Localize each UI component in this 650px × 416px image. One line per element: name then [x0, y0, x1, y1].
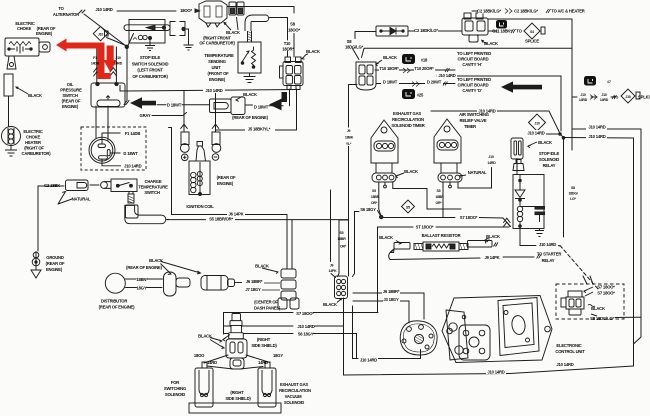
svg-text:G2 18BK: G2 18BK — [44, 183, 60, 188]
svg-text:18BR: 18BR — [435, 195, 444, 199]
svg-text:18OO*: 18OO* — [288, 28, 300, 33]
svg-text:OF CARBURETOR): OF CARBURETOR) — [132, 74, 168, 79]
svg-text:STOP IDLE: STOP IDLE — [140, 55, 161, 60]
svg-text:AIR SWITCHING: AIR SWITCHING — [459, 112, 489, 117]
svg-text:S8: S8 — [571, 186, 575, 190]
svg-text:J10: J10 — [488, 155, 493, 159]
svg-text:(REAR OF: (REAR OF — [217, 175, 236, 180]
svg-text:BLACK: BLACK — [149, 258, 163, 263]
svg-text:J10: J10 — [534, 121, 539, 125]
svg-text:T10 20OR*: T10 20OR* — [414, 66, 434, 71]
svg-text:ELECTRIC: ELECTRIC — [23, 129, 43, 134]
svg-text:G11 18BK*: G11 18BK* — [492, 29, 512, 34]
svg-text:14DB: 14DB — [91, 62, 100, 66]
svg-text:J5 18BK/YL*: J5 18BK/YL* — [248, 126, 271, 131]
svg-text:18OO: 18OO — [194, 353, 205, 358]
svg-text:18BK: 18BK — [345, 136, 354, 140]
svg-text:RELIEF VALVE: RELIEF VALVE — [460, 118, 487, 123]
svg-text:S5: S5 — [340, 231, 344, 235]
svg-text:HEATER: HEATER — [25, 140, 41, 145]
svg-text:J10 14RD: J10 14RD — [588, 125, 605, 130]
svg-text:CIRCUIT BOARD: CIRCUIT BOARD — [458, 83, 489, 88]
svg-text:IGNITION COIL: IGNITION COIL — [186, 204, 214, 209]
svg-text:J10 14RD: J10 14RD — [527, 130, 544, 135]
svg-text:F1 14DB: F1 14DB — [125, 131, 141, 136]
svg-text:18DG/LG*: 18DG/LG* — [345, 45, 364, 50]
svg-text:(REAR OF: (REAR OF — [62, 99, 81, 104]
svg-text:J10: J10 — [115, 56, 120, 60]
svg-text:TO LEFT PRINTED: TO LEFT PRINTED — [457, 51, 491, 56]
svg-text:EXHAUST GAS: EXHAUST GAS — [393, 111, 421, 116]
svg-text:SOLENOID: SOLENOID — [284, 400, 304, 405]
svg-text:RECIRCULATION: RECIRCULATION — [279, 388, 311, 393]
svg-text:SWITCH: SWITCH — [144, 190, 159, 195]
svg-text:OIL: OIL — [67, 82, 74, 87]
svg-text:D 18WT: D 18WT — [123, 151, 138, 156]
svg-text:14RD: 14RD — [258, 360, 268, 365]
svg-text:(RIGHT: (RIGHT — [257, 337, 271, 342]
svg-text:14RD: 14RD — [487, 161, 496, 165]
svg-text:S6 18GY: S6 18GY — [298, 332, 314, 337]
svg-text:BLACK: BLACK — [484, 41, 498, 46]
svg-text:J10: J10 — [625, 95, 630, 99]
svg-text:SIDE SHIELD): SIDE SHIELD) — [225, 396, 251, 401]
svg-text:BLACK: BLACK — [226, 30, 240, 35]
svg-text:SWITCH SOLENOID: SWITCH SOLENOID — [132, 61, 169, 66]
svg-text:SWITCHING: SWITCHING — [164, 386, 186, 391]
svg-text:CAVITY 'D': CAVITY 'D' — [462, 88, 481, 93]
svg-text:LG*: LG* — [570, 197, 576, 201]
svg-text:ALTERNATOR: ALTERNATOR — [53, 12, 79, 17]
svg-text:ENGINE): ENGINE) — [209, 77, 226, 82]
svg-text:TO LEFT PRINTED: TO LEFT PRINTED — [457, 77, 491, 82]
svg-text:J10: J10 — [580, 93, 585, 97]
svg-text:CONTROL UNIT: CONTROL UNIT — [555, 349, 585, 354]
svg-text:GROUND: GROUND — [46, 255, 64, 260]
svg-text:(REAR OF ENGINE): (REAR OF ENGINE) — [99, 305, 135, 310]
svg-text:18BR: 18BR — [371, 195, 380, 199]
svg-text:ST 18OO*: ST 18OO* — [416, 225, 434, 230]
svg-text:S7 18OO*: S7 18OO* — [460, 215, 478, 220]
svg-text:SENDING: SENDING — [208, 59, 226, 64]
svg-text:D 18WT: D 18WT — [167, 103, 182, 108]
svg-text:(LEFT FRONT: (LEFT FRONT — [137, 68, 163, 73]
svg-text:BLACK: BLACK — [486, 234, 500, 239]
svg-text:(REAR OF: (REAR OF — [46, 261, 65, 266]
svg-text:BLACK: BLACK — [255, 264, 269, 269]
svg-text:J6 18BR*: J6 18BR* — [383, 289, 400, 294]
svg-text:#7: #7 — [607, 80, 611, 84]
svg-text:RELAY: RELAY — [542, 258, 555, 263]
svg-text:J7 18GY: J7 18GY — [245, 287, 261, 292]
svg-text:OR*: OR* — [435, 201, 442, 205]
svg-text:D 18WT: D 18WT — [383, 80, 398, 85]
svg-text:S6 18GY: S6 18GY — [360, 207, 376, 212]
svg-text:GRAY: GRAY — [140, 113, 151, 118]
svg-text:18GY: 18GY — [273, 353, 283, 358]
svg-text:18OO*: 18OO* — [180, 8, 192, 13]
svg-text:S7 18OO*: S7 18OO* — [597, 285, 615, 290]
svg-text:SOLENOID TIMER: SOLENOID TIMER — [391, 123, 424, 128]
svg-text:TO A/C & HEATER: TO A/C & HEATER — [551, 9, 584, 14]
svg-text:(FRONT OF: (FRONT OF — [208, 71, 230, 76]
svg-text:FOR: FOR — [171, 380, 179, 385]
svg-text:SIDE SHIELD): SIDE SHIELD) — [251, 343, 277, 348]
svg-text:BLACK: BLACK — [306, 49, 320, 54]
svg-text:S5 18BR/OR*: S5 18BR/OR* — [209, 216, 233, 221]
svg-text:TO: TO — [58, 6, 64, 11]
svg-text:14PK: 14PK — [329, 269, 338, 273]
svg-text:TIMER: TIMER — [464, 124, 476, 129]
svg-text:CHOKE: CHOKE — [17, 26, 32, 31]
svg-text:T10: T10 — [284, 41, 291, 46]
svg-text:CARBURETOR): CARBURETOR) — [22, 151, 52, 156]
svg-text:14RD: 14RD — [207, 360, 217, 365]
svg-text:J9 14PK: J9 14PK — [485, 255, 500, 260]
svg-text:18BN*: 18BN* — [136, 277, 148, 282]
svg-text:#25: #25 — [417, 93, 424, 98]
svg-text:CAVITY 'H': CAVITY 'H' — [462, 62, 481, 67]
svg-text:J6 18BR*: J6 18BR* — [246, 279, 263, 284]
svg-text:SPLICE: SPLICE — [525, 39, 539, 44]
svg-text:F1: F1 — [93, 56, 97, 60]
svg-text:J10 14RD: J10 14RD — [95, 7, 112, 12]
svg-text:YL*: YL* — [346, 142, 352, 146]
svg-text:18GY: 18GY — [137, 285, 147, 290]
svg-text:14RD: 14RD — [579, 98, 588, 102]
svg-text:S8 18DG/LG*: S8 18DG/LG* — [590, 316, 614, 321]
svg-text:S5: S5 — [406, 205, 410, 209]
svg-text:OR*: OR* — [340, 245, 347, 249]
svg-text:(REAR OF ENGINE): (REAR OF ENGINE) — [126, 265, 162, 270]
svg-text:BLACK: BLACK — [383, 55, 397, 60]
svg-text:J10 14RD: J10 14RD — [297, 324, 314, 329]
svg-text:TO STARTER: TO STARTER — [537, 252, 562, 257]
svg-text:DASH PANEL): DASH PANEL) — [254, 306, 281, 311]
svg-text:J10 14RD: J10 14RD — [124, 163, 141, 168]
svg-text:C2 18BK/LG*: C2 18BK/LG* — [514, 9, 538, 14]
svg-text:S7 18OO*: S7 18OO* — [296, 311, 314, 316]
svg-text:J10 14RD: J10 14RD — [539, 242, 556, 247]
svg-text:BLACK: BLACK — [198, 334, 212, 339]
svg-text:BLACK: BLACK — [404, 169, 418, 174]
svg-text:18DG/: 18DG/ — [568, 192, 577, 196]
svg-text:D 20WT: D 20WT — [427, 80, 442, 85]
svg-text:T10 18OR*: T10 18OR* — [379, 66, 399, 71]
svg-text:SOLENOID: SOLENOID — [539, 157, 559, 162]
svg-text:ELECTRONIC: ELECTRONIC — [556, 343, 581, 348]
svg-text:(CENTER OF: (CENTER OF — [254, 300, 278, 305]
svg-text:J10 14RD: J10 14RD — [487, 369, 504, 374]
svg-text:SPLICE: SPLICE — [638, 95, 650, 100]
svg-text:BLACK: BLACK — [323, 302, 337, 307]
svg-text:STOP IDLE: STOP IDLE — [539, 151, 560, 156]
svg-text:J9: J9 — [330, 264, 334, 268]
svg-text:VACUUM: VACUUM — [285, 394, 303, 399]
svg-text:18BR: 18BR — [337, 237, 346, 241]
svg-text:OF CARBURETOR): OF CARBURETOR) — [199, 41, 235, 46]
svg-text:(RIGHT: (RIGHT — [230, 390, 244, 395]
svg-text:TEMPERATURE: TEMPERATURE — [138, 185, 168, 190]
svg-text:DISTRIBUTOR: DISTRIBUTOR — [101, 299, 128, 304]
svg-text:J3 18GY: J3 18GY — [383, 297, 399, 302]
svg-text:TO: TO — [516, 29, 522, 34]
svg-text:C2 18DK/LG*: C2 18DK/LG* — [414, 28, 438, 33]
svg-text:J10 14RD: J10 14RD — [438, 73, 455, 78]
svg-text:S7 18OO*: S7 18OO* — [597, 291, 615, 296]
svg-text:BALLAST RESISTOR: BALLAST RESISTOR — [422, 233, 461, 238]
svg-text:J9: J9 — [347, 129, 351, 133]
svg-text:ENGINE): ENGINE) — [36, 31, 53, 36]
svg-text:J10 14RD: J10 14RD — [205, 88, 222, 93]
svg-text:RECIRCULATION: RECIRCULATION — [392, 117, 424, 122]
svg-text:CHARGE: CHARGE — [145, 179, 162, 184]
svg-text:CIRCUIT BOARD: CIRCUIT BOARD — [458, 57, 489, 62]
svg-text:14RD: 14RD — [600, 98, 609, 102]
svg-text:TO: TO — [614, 96, 619, 100]
svg-text:18OR*: 18OR* — [282, 47, 294, 52]
svg-text:OR*: OR* — [371, 201, 378, 205]
svg-text:D 18WT: D 18WT — [254, 104, 269, 109]
svg-text:SOLENOID: SOLENOID — [165, 392, 185, 397]
svg-text:J10 14RD: J10 14RD — [360, 357, 377, 362]
svg-text:BLACK: BLACK — [591, 306, 605, 311]
svg-text:J10 14RD: J10 14RD — [588, 134, 605, 139]
svg-text:CHOKE: CHOKE — [26, 135, 41, 140]
svg-text:ENGINE): ENGINE) — [217, 181, 234, 186]
svg-text:(REAR OF ENGINE): (REAR OF ENGINE) — [232, 115, 268, 120]
svg-text:UNIT: UNIT — [212, 65, 222, 70]
svg-text:BLACK: BLACK — [538, 140, 552, 145]
svg-text:14RD: 14RD — [114, 62, 123, 66]
svg-text:S5: S5 — [372, 189, 376, 193]
svg-text:BLACK: BLACK — [243, 92, 257, 97]
svg-text:S5: S5 — [437, 189, 441, 193]
svg-text:(RIGHT OF: (RIGHT OF — [24, 146, 44, 151]
svg-text:PRESSURE: PRESSURE — [60, 88, 82, 93]
svg-text:SWITCH: SWITCH — [62, 93, 77, 98]
svg-text:J10: J10 — [98, 32, 103, 36]
svg-text:C2 18BK/LG*: C2 18BK/LG* — [477, 9, 501, 14]
svg-text:J10 14RD: J10 14RD — [556, 362, 573, 367]
svg-text:BLACK: BLACK — [28, 93, 42, 98]
svg-text:ENGINE): ENGINE) — [46, 267, 63, 272]
svg-text:NATURAL: NATURAL — [72, 197, 91, 202]
svg-text:ENGINE): ENGINE) — [62, 104, 79, 109]
svg-text:J10: J10 — [601, 93, 606, 97]
svg-text:EXHAUST GAS: EXHAUST GAS — [280, 382, 308, 387]
svg-text:NATURAL: NATURAL — [468, 170, 487, 175]
svg-text:S4: S4 — [530, 30, 534, 34]
svg-text:BLACK: BLACK — [379, 235, 393, 240]
svg-text:RELAY: RELAY — [543, 163, 556, 168]
svg-text:#18: #18 — [421, 58, 428, 63]
svg-text:TEMPERATURE: TEMPERATURE — [204, 53, 234, 58]
